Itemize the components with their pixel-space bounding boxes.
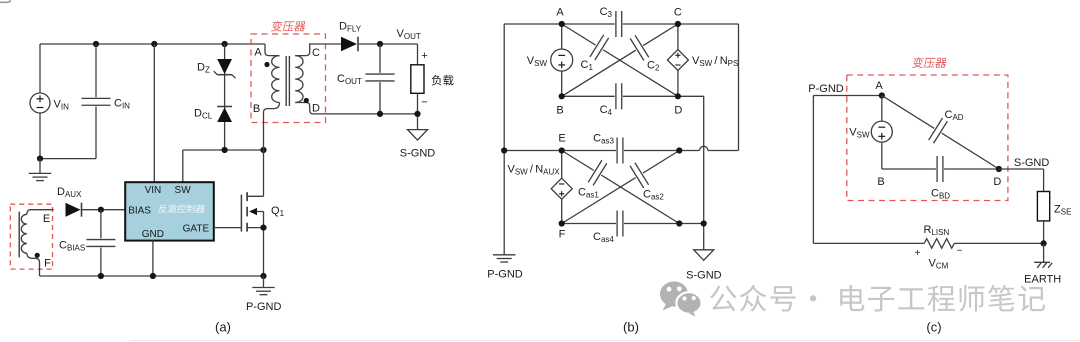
capacitor C_as3	[616, 137, 624, 165]
ground input	[39, 159, 41, 174]
diagonal E-D	[562, 151, 680, 224]
capacitor C_3	[615, 10, 623, 38]
svg-text:S-GND: S-GND	[1014, 157, 1050, 169]
svg-text:F: F	[559, 229, 566, 241]
wire right rail (b)	[738, 24, 740, 151]
node input gnd junction	[37, 156, 43, 162]
node C_OUT bottom	[377, 111, 383, 117]
wire E row	[504, 150, 699, 152]
zener diode D_Z	[224, 44, 226, 106]
svg-text:S-GND: S-GND	[400, 148, 436, 160]
transformer label (c)	[912, 57, 947, 68]
diagonal B-C	[562, 24, 678, 96]
dependent source V_SW/N_AUX	[561, 151, 563, 179]
capacitor C_2	[628, 34, 650, 62]
svg-text:+: +	[421, 50, 427, 62]
label load	[432, 75, 454, 86]
transformer dashed box (c)	[847, 75, 1008, 201]
aux core line	[18, 212, 20, 258]
wire earth stub	[1043, 243, 1045, 262]
capacitor C_4	[615, 82, 623, 110]
aux dashed box	[10, 204, 52, 269]
wire secondary D exit	[295, 103, 380, 114]
polarity dot primary	[264, 62, 269, 67]
node E (b)	[559, 147, 565, 153]
node V_OUT	[377, 41, 383, 47]
wire Zse to bottom	[1043, 221, 1045, 244]
wire primary A entry	[265, 44, 280, 56]
transformer core	[285, 56, 287, 106]
polarity dot secondary	[304, 98, 309, 103]
node C (b)	[675, 21, 681, 27]
svg-text:P-GND: P-GND	[808, 83, 844, 95]
svg-text:P-GND: P-GND	[246, 301, 282, 313]
node B (b)	[559, 93, 565, 99]
svg-text:EARTH: EARTH	[1024, 274, 1061, 286]
wire bias	[82, 209, 126, 211]
node earth junction	[1041, 240, 1047, 246]
node E-row right	[676, 147, 682, 153]
wire top rail (a)	[40, 43, 265, 45]
wire load bottom	[417, 93, 419, 129]
primary winding	[272, 56, 280, 103]
node load bottom	[414, 111, 420, 117]
ground P-GND (a)	[263, 276, 265, 287]
svg-text:A: A	[556, 7, 564, 19]
svg-text:D: D	[993, 176, 1001, 188]
controller box	[125, 182, 214, 240]
capacitor C_BIAS	[100, 210, 102, 276]
wire primary B exit	[264, 103, 280, 151]
wire secondary bottom rail	[380, 113, 418, 115]
wire secondary C exit	[295, 44, 341, 56]
aux winding	[27, 210, 54, 215]
watermark text	[710, 285, 1045, 312]
watermark wechat icon	[660, 281, 702, 316]
capacitor C_OUT	[379, 44, 381, 114]
wire VIN pin	[153, 44, 155, 182]
svg-text:(b): (b)	[623, 320, 639, 335]
wire A-C top (b)	[504, 23, 738, 25]
svg-text:A: A	[254, 47, 262, 59]
wire switch rail	[183, 149, 264, 151]
node F (b)	[559, 220, 565, 226]
svg-text:P-GND: P-GND	[487, 269, 523, 281]
diode D_CL	[224, 106, 226, 150]
svg-text:E: E	[43, 213, 50, 225]
svg-text:D: D	[674, 105, 682, 117]
capacitor C_as1	[586, 159, 608, 187]
wire B-D (b)	[562, 95, 704, 97]
svg-text:GND: GND	[142, 229, 164, 240]
node bias junction	[98, 207, 104, 213]
node junction C_IN top	[93, 41, 99, 47]
svg-text:−: −	[957, 246, 963, 257]
ground EARTH	[1034, 261, 1050, 263]
svg-text:D: D	[312, 103, 320, 115]
capacitor C_BD	[936, 155, 944, 183]
capacitor C_1	[588, 33, 610, 61]
node source bottom	[260, 273, 266, 279]
diagonal A-D	[562, 24, 678, 96]
ground P-GND (b)	[493, 254, 515, 256]
wire SW pin	[182, 150, 184, 182]
diagonal A-D (c)	[882, 96, 999, 170]
svg-text:F: F	[44, 258, 51, 270]
capacitor C_AD	[927, 117, 949, 145]
svg-text:−: −	[421, 97, 427, 109]
node F-row right	[676, 220, 682, 226]
wire output top	[359, 43, 418, 45]
node GND bottom	[150, 273, 156, 279]
svg-text:VIN: VIN	[145, 185, 162, 196]
wire F row	[562, 223, 704, 225]
load resistor box	[411, 65, 424, 94]
node D (c)	[996, 166, 1002, 172]
svg-text:C: C	[674, 7, 682, 19]
svg-text:A: A	[875, 80, 883, 92]
polarity dot aux	[35, 253, 40, 258]
node junction VIN top	[151, 41, 157, 47]
voltage source V_SW (b)	[561, 24, 563, 49]
node drain junction	[260, 147, 266, 153]
wire load top	[417, 44, 419, 65]
diagonal F-C	[562, 151, 680, 224]
transformer dashed box	[251, 34, 326, 123]
secondary winding	[295, 56, 303, 103]
capacitor C_as4	[616, 210, 624, 238]
wire GND pin	[152, 241, 154, 276]
capacitor C_as2	[628, 161, 650, 189]
wire gate	[214, 227, 242, 229]
node A (b)	[559, 21, 565, 27]
corner mark	[0, 0, 10, 2]
capacitor C_IN	[95, 44, 97, 159]
diode D_AUX	[66, 203, 81, 217]
svg-text:B: B	[253, 103, 260, 115]
wire D down rail	[703, 96, 705, 250]
bottom edge line	[130, 340, 1080, 342]
node D (b)	[675, 93, 681, 99]
dependent source V_SW/N_PS	[677, 24, 679, 50]
node F-row D rail	[701, 220, 707, 226]
resistor R_LISN	[924, 239, 954, 249]
wire left rail (b)	[503, 24, 505, 255]
ground S-GND (a)	[408, 130, 428, 141]
wire top (c)	[813, 95, 881, 97]
node rail-E junction	[501, 147, 507, 153]
svg-text:(c): (c)	[926, 320, 941, 335]
svg-text:GATE: GATE	[183, 223, 210, 234]
svg-text:E: E	[558, 133, 565, 145]
svg-text:(a): (a)	[215, 320, 231, 335]
svg-text:SW: SW	[175, 185, 192, 196]
svg-text:C: C	[312, 47, 320, 59]
wire B-D (c)	[882, 168, 999, 170]
impedance Z_SE box	[1037, 192, 1049, 221]
wire left rail (c)	[812, 96, 814, 244]
svg-text:+: +	[915, 248, 921, 259]
node junction D_Z top	[222, 41, 228, 47]
node source	[260, 225, 266, 231]
transistor Q1	[240, 195, 242, 232]
svg-text:B: B	[556, 105, 563, 117]
svg-text:BIAS: BIAS	[128, 205, 151, 216]
node D_CL bottom	[222, 147, 228, 153]
voltage source V_IN	[39, 44, 41, 93]
wire D to Zse	[999, 168, 1044, 170]
svg-text:B: B	[877, 176, 884, 188]
wire input bottom	[40, 158, 96, 160]
wire bottom rail (a)	[40, 275, 264, 277]
ground S-GND (b)	[694, 250, 714, 260]
node A (c)	[879, 92, 885, 98]
svg-text:S-GND: S-GND	[686, 270, 722, 282]
node C_BIAS bottom	[98, 273, 104, 279]
wire bottom (c)	[813, 242, 924, 244]
controller name	[158, 204, 206, 213]
transformer label	[271, 21, 306, 32]
diode D_FLY	[341, 37, 357, 52]
voltage source V_SW (c)	[881, 96, 883, 122]
